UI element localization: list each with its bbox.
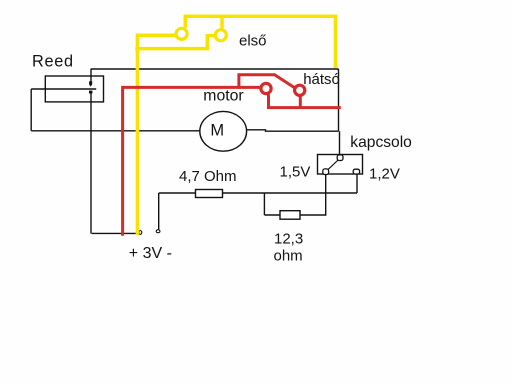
- svg-text:kapcsolo: kapcsolo: [350, 134, 412, 151]
- switch kapcsolo lever: [327, 159, 339, 170]
- wire hátsó output horizontal: [267, 106, 341, 109]
- wire 12,3 ohm branch: [264, 214, 326, 216]
- wire switch feed vertical upper: [338, 69, 340, 131]
- reed switch contact bar: [31, 88, 96, 90]
- wire reed vertical lower lead down to battery plus: [90, 93, 92, 234]
- switch első contact B: [215, 30, 226, 41]
- wire from 1,5V contact down crossing to 12,3 ohm: [325, 174, 327, 216]
- wire hátsó supply vertical and horizontal (red): [123, 87, 260, 235]
- resistor R1 4,7 Ohm: [196, 190, 223, 198]
- wire első lower branch: [135, 36, 214, 49]
- wire motor right: [247, 130, 339, 131]
- wire battery minus rail horizontal: [159, 192, 357, 194]
- switch contact 1,5V side: [323, 169, 329, 175]
- switch első contact A: [176, 28, 187, 39]
- wire hátsó upper link and lever diagonal: [239, 75, 295, 89]
- wire motor left: [31, 130, 200, 132]
- wire első left lead and long vertical to battery: [137, 35, 175, 235]
- svg-text:12,3: 12,3: [274, 231, 303, 248]
- wire battery minus up: [158, 193, 160, 229]
- battery terminal minus: [156, 230, 160, 233]
- wire hátsó contact A down: [267, 94, 270, 107]
- svg-text:1,2V: 1,2V: [369, 166, 400, 183]
- svg-text:Reed: Reed: [32, 53, 74, 71]
- svg-text:1,5V: 1,5V: [280, 164, 311, 181]
- switch contact 1,2V side: [353, 169, 359, 174]
- resistor R2 12,3 ohm: [280, 211, 300, 220]
- reed contact dot lower: [89, 91, 92, 94]
- reed contact dot upper: [89, 81, 92, 86]
- svg-text:hátsó: hátsó: [303, 71, 340, 88]
- wire reed vertical upper lead: [90, 69, 92, 82]
- wire battery plus horizontal: [92, 232, 138, 234]
- switch hátsó contact A: [261, 83, 271, 93]
- wire junction branch down: [263, 193, 265, 215]
- wire hátsó contact B down: [299, 96, 302, 107]
- svg-text:4,7 Ohm: 4,7 Ohm: [179, 168, 237, 185]
- switch kapcsolo body: [318, 155, 363, 175]
- reed switch Reed body: [45, 76, 103, 102]
- wire első drop to contact B: [220, 16, 224, 28]
- wire from 1,2V contact down: [356, 174, 358, 193]
- wire switch feed vertical lower: [339, 131, 341, 156]
- wire első supply loop (yellow): [185, 16, 335, 68]
- battery terminal plus: [139, 231, 142, 235]
- wire left loop vertical: [30, 89, 32, 131]
- svg-text:ohm: ohm: [274, 247, 303, 264]
- switch contact common: [337, 155, 343, 161]
- svg-text:M: M: [210, 121, 224, 139]
- svg-text:+ 3V -: + 3V -: [129, 245, 172, 262]
- wire top rail from reed to switch feed: [91, 68, 339, 70]
- svg-text:első: első: [239, 33, 267, 50]
- svg-text:motor: motor: [203, 87, 243, 104]
- motor M1: [200, 111, 247, 151]
- switch hátsó contact B: [295, 85, 305, 95]
